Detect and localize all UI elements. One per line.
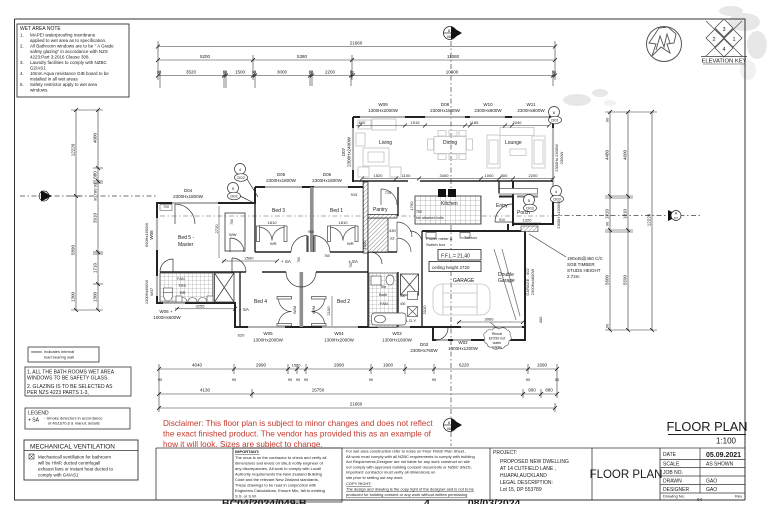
svg-text:+ SA: + SA xyxy=(239,307,249,312)
svg-text:D03: D03 xyxy=(553,197,561,202)
svg-text:2200: 2200 xyxy=(529,173,539,178)
svg-text:AS SHOWN: AS SHOWN xyxy=(706,462,734,468)
svg-text:90: 90 xyxy=(350,70,355,75)
svg-text:IMPORTANT:: IMPORTANT: xyxy=(235,449,259,454)
svg-text:site prior to setting out any: site prior to setting out any work xyxy=(346,475,402,480)
svg-text:90 780 90: 90 780 90 xyxy=(93,182,98,201)
svg-text:10900: 10900 xyxy=(446,70,459,75)
svg-text:PROPOSED NEW DWELLING: PROPOSED NEW DWELLING xyxy=(500,459,569,465)
svg-text:760: 760 xyxy=(230,219,234,225)
svg-text:TRS: TRS xyxy=(178,283,186,288)
svg-text:Bed 3: Bed 3 xyxy=(272,208,285,214)
svg-text:1515: 1515 xyxy=(411,120,421,125)
svg-text:1.: 1. xyxy=(20,33,24,38)
svg-text:1810: 1810 xyxy=(605,208,610,219)
svg-text:04: 04 xyxy=(697,497,703,502)
svg-text:5600: 5600 xyxy=(605,274,610,285)
svg-text:Dining: Dining xyxy=(443,140,457,146)
svg-text:5590: 5590 xyxy=(623,274,628,285)
svg-text:FLOOR PLAN: FLOOR PLAN xyxy=(590,469,663,481)
svg-text:ST.: ST. xyxy=(390,236,396,241)
svg-text:4040: 4040 xyxy=(192,363,203,368)
svg-text:Authority requirements the New: Authority requirements the New Zealand B… xyxy=(235,472,322,477)
svg-text:2300Hx1800W: 2300Hx1800W xyxy=(173,194,204,199)
svg-text:SGB TIMBER: SGB TIMBER xyxy=(567,262,595,267)
svg-text:12220: 12220 xyxy=(71,143,76,156)
svg-text:1300Hx2000W: 1300Hx2000W xyxy=(253,338,284,343)
svg-text:430: 430 xyxy=(389,228,396,233)
svg-text:DATE: DATE xyxy=(663,452,677,458)
svg-text:All Bathroom windows are to be: All Bathroom windows are to be " A Grade xyxy=(30,44,114,49)
svg-text:MAPEI waterproofing membrane: MAPEI waterproofing membrane xyxy=(30,33,96,38)
svg-text:Safety restrictor apply to we: Safety restrictor apply to wet area xyxy=(30,82,98,87)
svg-text:STUDS HEIGHT: STUDS HEIGHT xyxy=(567,268,601,273)
svg-text:D02: D02 xyxy=(230,194,238,199)
svg-text:+ SA: + SA xyxy=(281,259,291,264)
svg-text:comply with G4/AS1: comply with G4/AS1 xyxy=(38,473,79,478)
svg-text:W/M: W/M xyxy=(292,306,297,314)
svg-text:1710: 1710 xyxy=(93,262,98,273)
svg-text:1300Hx2000W: 1300Hx2000W xyxy=(324,338,355,343)
svg-text:600: 600 xyxy=(359,120,366,125)
svg-text:10mm Aqua resistance GIB board: 10mm Aqua resistance GIB board to be xyxy=(30,71,109,76)
svg-text:4480: 4480 xyxy=(605,149,610,160)
svg-text:1:100: 1:100 xyxy=(716,437,737,446)
svg-text:1500: 1500 xyxy=(235,70,246,75)
svg-text:W/M: W/M xyxy=(311,306,316,314)
svg-text:90: 90 xyxy=(296,377,301,382)
svg-text:applied to wet area as to spec: applied to wet area as to specification. xyxy=(30,38,106,43)
svg-text:5.: 5. xyxy=(20,82,24,87)
svg-text:Lounge: Lounge xyxy=(505,140,522,146)
svg-text:BR: BR xyxy=(180,290,186,295)
svg-text:Tile: Tile xyxy=(380,284,387,289)
svg-text:D08: D08 xyxy=(441,102,450,107)
svg-text:600Hx1600W: 600Hx1600W xyxy=(144,223,149,247)
svg-text:+ SA: + SA xyxy=(28,418,40,424)
svg-text:D02: D02 xyxy=(237,175,245,180)
svg-text:Rinnai: Rinnai xyxy=(492,332,502,336)
svg-text:90: 90 xyxy=(432,377,437,382)
svg-text:1810: 1810 xyxy=(339,220,349,225)
svg-text:750: 750 xyxy=(416,210,422,214)
svg-text:ELEVATION KEY: ELEVATION KEY xyxy=(702,59,747,65)
svg-text:Rev.: Rev. xyxy=(735,494,743,499)
svg-text:Lot 15, DP 553789: Lot 15, DP 553789 xyxy=(500,487,542,493)
svg-text:GAO: GAO xyxy=(706,479,717,485)
svg-text:1810: 1810 xyxy=(268,220,278,225)
svg-text:2.: 2. xyxy=(20,44,24,49)
svg-text:3: 3 xyxy=(722,27,725,33)
svg-text:Disclaimer: This floor plan is: Disclaimer: This floor plan is subject t… xyxy=(163,419,433,428)
svg-text:GAO: GAO xyxy=(706,487,717,493)
svg-text:WR: WR xyxy=(347,241,354,246)
svg-text:15750: 15750 xyxy=(312,388,325,393)
svg-text:Bed 1: Bed 1 xyxy=(330,208,343,214)
svg-text:Bath: Bath xyxy=(379,292,387,297)
svg-text:1520: 1520 xyxy=(374,173,384,178)
svg-text:1510: 1510 xyxy=(292,363,302,368)
svg-text:W08: W08 xyxy=(149,230,154,240)
svg-text:COPY RIGHT:: COPY RIGHT: xyxy=(346,481,372,486)
svg-text:D07: D07 xyxy=(341,147,346,156)
svg-text:1000: 1000 xyxy=(362,240,367,250)
svg-text:760: 760 xyxy=(297,257,301,263)
svg-text:2300H x1300W: 2300H x1300W xyxy=(556,201,561,229)
svg-text:WR: WR xyxy=(270,241,277,246)
svg-text:LEGAL DESCRIPTION:: LEGAL DESCRIPTION: xyxy=(500,480,553,486)
svg-text:3400: 3400 xyxy=(440,173,450,178)
svg-text:90: 90 xyxy=(605,221,610,226)
svg-text:DRAWN: DRAWN xyxy=(663,479,682,485)
svg-text:90: 90 xyxy=(605,323,610,328)
svg-text:1100: 1100 xyxy=(402,173,411,178)
svg-text:W11: W11 xyxy=(527,102,536,107)
svg-text:90: 90 xyxy=(288,377,293,382)
svg-text:W05: W05 xyxy=(263,331,273,336)
svg-text:90: 90 xyxy=(223,70,228,75)
svg-text:4223:Part 3:2016 Clause 308.: 4223:Part 3:2016 Clause 308. xyxy=(30,55,90,60)
svg-text:Porch: Porch xyxy=(517,210,530,216)
svg-text:D06: D06 xyxy=(323,172,332,177)
svg-text:90: 90 xyxy=(555,377,560,382)
svg-text:Bed 2: Bed 2 xyxy=(337,299,350,305)
svg-text:D05: D05 xyxy=(277,172,286,177)
svg-text:installed in all wet areas: installed in all wet areas xyxy=(30,77,79,82)
svg-text:The design and drawing is the: The design and drawing is the copy right… xyxy=(346,487,475,492)
svg-text:2720: 2720 xyxy=(214,224,219,234)
svg-text:190x45@450 C/C: 190x45@450 C/C xyxy=(567,256,604,261)
svg-text:880: 880 xyxy=(93,171,98,179)
svg-text:windows.: windows. xyxy=(30,88,49,93)
svg-text:07: 07 xyxy=(674,216,679,221)
svg-text:4130: 4130 xyxy=(200,388,211,393)
svg-text:760: 760 xyxy=(324,254,330,258)
svg-text:Switch box: Switch box xyxy=(426,242,445,247)
svg-text:D04: D04 xyxy=(184,188,193,193)
svg-text:1320: 1320 xyxy=(523,218,533,223)
svg-text:960: 960 xyxy=(308,230,314,234)
svg-text:2300Hx800W: 2300Hx800W xyxy=(474,108,502,113)
svg-text:FAN: FAN xyxy=(380,301,388,306)
svg-text:xxxxxx: xxxxxx xyxy=(31,349,42,354)
svg-text:90: 90 xyxy=(552,70,557,75)
svg-text:water: water xyxy=(493,341,503,345)
svg-text:3520: 3520 xyxy=(186,70,197,75)
svg-text:The onus is on the contractor: The onus is on the contractor to check a… xyxy=(235,455,326,460)
svg-text:not comply with approved build: not comply with approved building consen… xyxy=(346,464,472,469)
svg-text:2300Hx4800W: 2300Hx4800W xyxy=(530,269,535,296)
svg-text:06: 06 xyxy=(447,34,452,39)
svg-text:2200: 2200 xyxy=(325,70,336,75)
svg-text:Living: Living xyxy=(379,140,392,146)
svg-text:infinity: infinity xyxy=(492,346,502,350)
svg-text:915: 915 xyxy=(351,192,358,197)
svg-text:900: 900 xyxy=(528,388,536,393)
svg-text:safety glazing" in accordance: safety glazing" in accordance with NZS xyxy=(30,49,108,54)
svg-text:90: 90 xyxy=(252,70,257,75)
svg-text:2300Hx1800W: 2300Hx1800W xyxy=(266,178,297,183)
svg-text:910: 910 xyxy=(499,218,505,222)
svg-text:2040: 2040 xyxy=(513,120,523,125)
svg-text:3255: 3255 xyxy=(196,304,206,309)
svg-text:WET AREA NOTE: WET AREA NOTE xyxy=(20,26,61,32)
svg-text:of AS1670,6 & manuf, details: of AS1670,6 & manuf, details xyxy=(48,421,100,426)
svg-text:1300Hx600W: 1300Hx600W xyxy=(144,280,149,304)
svg-text:4600: 4600 xyxy=(623,149,628,160)
svg-text:W03: W03 xyxy=(392,331,402,336)
svg-text:Important: contractor must ver: Important: contractor must verify all di… xyxy=(346,470,435,475)
svg-text:6220: 6220 xyxy=(459,363,470,368)
svg-text:DESIGNER: DESIGNER xyxy=(663,487,690,493)
svg-text:4.: 4. xyxy=(20,71,24,76)
svg-text:Power meter &: Power meter & xyxy=(426,236,453,241)
svg-text:2100: 2100 xyxy=(326,306,331,316)
svg-text:90: 90 xyxy=(526,377,531,382)
svg-text:JOB NO.: JOB NO. xyxy=(663,470,683,476)
svg-text:F.F.L.= 21,40: F.F.L.= 21,40 xyxy=(441,254,470,260)
svg-text:Bed 5 -: Bed 5 - xyxy=(178,235,194,241)
svg-text:D01: D01 xyxy=(551,118,559,123)
svg-text:2300W: 2300W xyxy=(559,151,564,164)
svg-text:21660: 21660 xyxy=(350,41,363,46)
svg-text:5890: 5890 xyxy=(71,244,76,255)
svg-text:AT 14 CUTFIELD LANE ,: AT 14 CUTFIELD LANE , xyxy=(500,466,556,472)
svg-text:05.09.2021: 05.09.2021 xyxy=(706,452,741,459)
svg-text:Bed 4: Bed 4 xyxy=(254,299,267,305)
svg-text:2300Hx800W: 2300Hx800W xyxy=(517,108,545,113)
svg-text:4000: 4000 xyxy=(93,132,98,143)
svg-text:90: 90 xyxy=(369,377,374,382)
svg-text:EF250 hot: EF250 hot xyxy=(489,337,506,341)
svg-text:800: 800 xyxy=(501,173,508,178)
svg-text:Laundry facilities to comply w: Laundry facilities to comply with NZBC xyxy=(30,60,108,65)
svg-text:fdb attached bolts: fdb attached bolts xyxy=(416,216,444,220)
svg-text:400: 400 xyxy=(400,294,406,298)
svg-text:Kitchen: Kitchen xyxy=(441,201,458,207)
svg-text:1000Hx600W: 1000Hx600W xyxy=(153,315,181,320)
svg-text:FAN: FAN xyxy=(177,276,185,281)
svg-text:2300Hx1800W: 2300Hx1800W xyxy=(312,178,343,183)
svg-text:exhaust fans or instant heat d: exhaust fans or instant heat ducted to xyxy=(38,467,114,472)
svg-text:WINDOWS TO BE SAFETY GLASS.: WINDOWS TO BE SAFETY GLASS. xyxy=(27,376,109,382)
svg-text:710: 710 xyxy=(385,190,392,195)
svg-text:1: 1 xyxy=(732,37,735,43)
svg-text:Garage: Garage xyxy=(498,278,515,284)
svg-text:90: 90 xyxy=(309,70,314,75)
svg-text:These drawings to be read in c: These drawings to be read in conjunction… xyxy=(235,483,316,488)
svg-text:ceiling height 2720: ceiling height 2720 xyxy=(432,265,470,270)
svg-text:1300Hx1200W: 1300Hx1200W xyxy=(448,346,479,351)
svg-text:1300Hx1600W: 1300Hx1600W xyxy=(382,338,413,343)
svg-text:MECHANICAL VENTILATION: MECHANICAL VENTILATION xyxy=(30,444,115,451)
svg-text:2: 2 xyxy=(712,37,715,43)
svg-text:2990: 2990 xyxy=(256,363,267,368)
svg-text:1000: 1000 xyxy=(485,173,495,178)
svg-text:will be HMP, ducted centrifuga: will be HMP, ducted centrifugall xyxy=(38,461,100,466)
svg-text:400: 400 xyxy=(400,302,406,306)
svg-text:3060: 3060 xyxy=(485,317,495,322)
svg-text:Engineers Calculations, Ensure: Engineers Calculations, Ensure Min, fall… xyxy=(235,488,325,493)
svg-text:Entry: Entry xyxy=(496,203,508,209)
svg-text:any discrepancies. All work to: any discrepancies. All work to comply wi… xyxy=(235,466,321,471)
svg-text:GARAGE: GARAGE xyxy=(453,278,475,284)
svg-text:Indicates internal: Indicates internal xyxy=(44,349,74,354)
svg-text:W09: W09 xyxy=(378,102,388,107)
svg-text:Mechanicall ventillation for: Mechanicall ventillation for bathroom xyxy=(38,455,111,460)
svg-text:620: 620 xyxy=(238,333,245,338)
svg-text:06: 06 xyxy=(447,426,452,431)
svg-text:90: 90 xyxy=(232,377,237,382)
svg-text:1300: 1300 xyxy=(93,291,98,302)
svg-text:produced for building consent: produced for building consent or any wor… xyxy=(346,492,467,497)
svg-text:2590: 2590 xyxy=(245,256,255,261)
svg-text:880: 880 xyxy=(545,388,553,393)
svg-text:1900: 1900 xyxy=(383,363,394,368)
svg-text:760: 760 xyxy=(349,262,353,268)
svg-text:5380: 5380 xyxy=(297,54,308,59)
svg-text:1810: 1810 xyxy=(623,208,628,219)
svg-text:12220: 12220 xyxy=(647,213,652,226)
svg-text:W07: W07 xyxy=(149,287,154,296)
svg-text:400: 400 xyxy=(538,316,543,323)
svg-text:W04: W04 xyxy=(334,331,344,336)
svg-text:3910: 3910 xyxy=(93,212,98,223)
svg-text:90: 90 xyxy=(157,70,162,75)
svg-text:5200: 5200 xyxy=(200,54,211,59)
svg-text:90: 90 xyxy=(605,117,610,122)
svg-text:Master: Master xyxy=(178,242,194,248)
svg-text:11080: 11080 xyxy=(447,54,460,59)
svg-text:2010: 2010 xyxy=(422,305,427,315)
svg-text:FLOOR PLAN: FLOOR PLAN xyxy=(666,419,747,434)
svg-text:Txt box: Txt box xyxy=(464,235,477,240)
svg-text:HUAPAI,AUCKLAND: HUAPAI,AUCKLAND xyxy=(500,473,547,479)
svg-text:1690: 1690 xyxy=(537,363,548,368)
svg-text:1185: 1185 xyxy=(470,120,479,125)
svg-text:2.72m: 2.72m xyxy=(567,274,580,279)
svg-text:2300Hx1800W: 2300Hx1800W xyxy=(430,108,461,113)
svg-text:3000: 3000 xyxy=(277,70,288,75)
svg-text:700: 700 xyxy=(163,205,169,209)
svg-text:W02: W02 xyxy=(458,340,468,345)
svg-text:90: 90 xyxy=(158,377,163,382)
svg-text:the exact finished product. Th: the exact finished product. The vendor h… xyxy=(163,430,432,439)
svg-text:90: 90 xyxy=(304,377,309,382)
svg-text:2300Hx2400W: 2300Hx2400W xyxy=(347,136,352,167)
svg-text:2990: 2990 xyxy=(334,363,345,368)
svg-text:load bearing wall: load bearing wall xyxy=(44,355,74,360)
svg-text:G2/AS1: G2/AS1 xyxy=(30,66,46,71)
svg-text:PER NZS 4223 PARTS 1-3,: PER NZS 4223 PARTS 1-3, xyxy=(27,390,89,396)
svg-text:Drawing No.: Drawing No. xyxy=(663,494,685,499)
svg-text:1300Hx2000W: 1300Hx2000W xyxy=(368,108,399,113)
svg-text:All work must comply with all: All work must comply with all NZBC requi… xyxy=(346,454,475,459)
svg-text:4: 4 xyxy=(722,47,725,53)
svg-text:For wet area construction refe: For wet area construction refer to notes… xyxy=(346,449,466,454)
svg-text:W10: W10 xyxy=(483,102,493,107)
svg-text:SCALE: SCALE xyxy=(663,462,680,468)
svg-text:21660: 21660 xyxy=(350,402,363,407)
svg-text:2300Hx760W: 2300Hx760W xyxy=(410,348,438,353)
svg-text:Pantry: Pantry xyxy=(373,207,388,213)
svg-text:1300: 1300 xyxy=(71,291,76,302)
svg-text:L.D.Y.: L.D.Y. xyxy=(406,318,417,323)
svg-text:WW: WW xyxy=(229,232,237,237)
svg-text:1790: 1790 xyxy=(409,201,414,211)
svg-text:3.: 3. xyxy=(20,60,24,65)
svg-text:dimensions and levels on site,: dimensions and levels on site,& notify e… xyxy=(235,461,324,466)
svg-text:Act Requirments,Designer are n: Act Requirments,Designer are not liable … xyxy=(346,459,471,464)
svg-text:W06 +: W06 + xyxy=(159,309,173,314)
svg-text:Code and the relevant New Zeal: Code and the relevant New Zealand standa… xyxy=(235,477,319,482)
svg-text:D03: D03 xyxy=(420,342,429,347)
svg-text:PROJECT:: PROJECT: xyxy=(493,450,517,456)
